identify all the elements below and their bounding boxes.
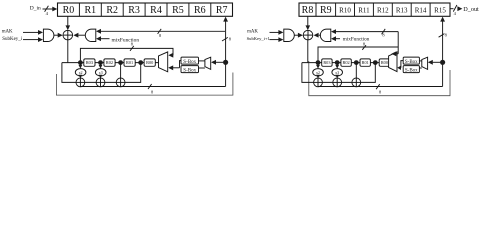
svg-text:R01: R01 [126,60,133,65]
M2 output stubs to S-Boxes [199,60,205,62]
feedback vertical wire to R15 [442,21,444,87]
tap wire dot2 to x3 multiplier [336,63,338,67]
D_in bus slash [45,6,49,12]
M1 bottom input from S-Boxes [173,67,180,69]
wire R8 to XOR2 [307,16,309,26]
register bank R8-R15 [299,3,450,16]
S-Box 2 [403,66,419,73]
multiplier x3 [95,69,106,76]
chain register R00 [379,59,389,66]
svg-text:8: 8 [151,90,154,95]
slash on output bus [148,84,152,89]
register bank R0-R7 [58,3,233,16]
chain register R03 [84,59,95,66]
AND gate U2 (mixFunction gate) [85,29,96,41]
svg-text:R00: R00 [146,60,153,65]
AND gate U1 (mAK/SubKey_i) [43,29,54,41]
x2 output into xor c1 [79,75,81,77]
junction dot (feedback node) [223,60,228,65]
chain register R02 [104,59,115,66]
svg-text:R9: R9 [320,5,332,16]
top bypass wire from chain head [80,48,173,62]
sbox output bus [401,61,403,68]
svg-text:R4: R4 [150,5,162,16]
chain register R01 [360,59,370,66]
D_in wire [43,8,54,10]
M3 bottom input from S-Boxes [400,67,401,69]
output bus from c1 to feedback vertical [80,86,225,88]
xor c2 [333,78,342,87]
svg-text:R01: R01 [362,60,369,65]
feedback vertical wire to R7 [225,21,227,87]
mux M4 [422,57,428,69]
svg-text:R02: R02 [343,60,350,65]
top bypass wire from chain head [318,47,398,63]
AND gate U4 (mixFunction gate) [320,29,330,41]
svg-text:x3: x3 [99,71,103,75]
outer box (right half) [309,61,450,96]
svg-text:mAK: mAK [247,29,258,34]
slash on output bus [376,84,380,89]
byte chain row wire [302,62,389,64]
svg-text:R00: R00 [381,60,388,65]
byte chain row wire [62,62,158,64]
U1 output wire into XOR1 [54,34,59,36]
svg-text:S-Box: S-Box [183,60,196,65]
svg-text:R8: R8 [302,5,314,16]
U4 bottom input mixFunction [336,38,340,40]
U1 input wires [23,31,38,33]
svg-text:4: 4 [454,11,457,16]
svg-text:R14: R14 [415,6,427,14]
svg-text:R10: R10 [339,6,351,14]
svg-text:R7: R7 [216,5,228,16]
mux M2 [205,57,211,69]
register labels R8..R15 [302,5,332,16]
xor row wire with right corner to dot4 [314,63,376,83]
svg-text:R11: R11 [358,6,370,14]
svg-text:mAK: mAK [2,29,13,34]
svg-text:R03: R03 [323,60,330,65]
slash on vertical bus [222,37,228,41]
svg-text:R03: R03 [86,60,93,65]
output bus from c1 to feedback vertical [318,86,443,88]
svg-text:R3: R3 [128,5,140,16]
S-Box 1 [181,57,199,64]
slash on U4 feedback wire [382,29,386,34]
chain register R01 [124,59,135,66]
mux M1 [159,52,168,72]
U2 top input from feedback [101,30,225,32]
XOR1 output down to chain [67,40,69,63]
xor row wire with right corner to dot4 [76,63,141,83]
slash on bypass wire [362,45,366,50]
arrow into mux M3 top [396,53,398,55]
svg-text:R15: R15 [434,6,446,14]
svg-text:x2: x2 [79,71,83,75]
x3 output into xor c2 [100,75,102,77]
svg-text:R2: R2 [106,5,118,16]
D_out wire [450,8,454,10]
tap wire dot1 to x2 multiplier [79,63,81,67]
XOR gate XOR2 [303,30,313,40]
wire R0 to XOR1 [67,16,69,26]
U3 input wires [270,31,279,33]
chain register labels [323,60,388,65]
svg-text:8: 8 [379,89,382,94]
S-Box 1 [403,57,419,64]
svg-text:8: 8 [445,32,448,37]
svg-text:x3: x3 [335,71,339,75]
M2 input from feedback node [216,61,223,63]
AND gate U3 (mAK/SubKey_i+1) [284,29,295,41]
M4 input from feedback node [433,61,441,63]
sbox output bus [180,61,182,68]
chain node dots [78,60,83,65]
svg-text:R02: R02 [106,60,113,65]
svg-text:R13: R13 [396,6,408,14]
svg-text:R6: R6 [194,5,206,16]
XOR gate XOR1 [63,30,73,40]
xor c1 [314,78,323,87]
slash on vertical bus [439,34,445,38]
svg-text:R1: R1 [84,5,96,16]
U2 output wire into XOR1 [79,34,86,36]
chain register R02 [341,59,351,66]
D_in arrowhead [52,7,57,12]
U4 output wire into XOR2 [319,34,321,36]
svg-text:R5: R5 [172,5,184,16]
svg-text:8: 8 [229,36,232,41]
chain register labels [86,60,153,65]
slash on feedback wire [158,29,162,34]
chain left corner down to xor row [302,63,314,83]
junction dot (feedback node) [440,60,445,65]
U4 top input from bypass drop [336,31,398,33]
register labels R0..R7 [63,5,228,16]
mux M3 [389,52,397,72]
D_out arrowhead [457,6,462,11]
tap wire dot1 to x2 multiplier [317,63,319,67]
multiplier x2 [313,69,324,76]
svg-text:S-Box: S-Box [183,68,196,73]
xor c3 [116,78,125,87]
x3 output into xor c2 [336,75,338,77]
chain register R00 [144,59,155,66]
x2 output into xor c1 [317,75,319,77]
slash on bypass wire [130,46,134,51]
svg-text:S-Box: S-Box [405,68,418,73]
svg-text:D_in: D_in [30,6,41,12]
chain left corner down to xor row [62,63,76,83]
bypass drop wire from U4 wire through top wire into mux M3 [397,32,399,54]
svg-text:x2: x2 [316,71,320,75]
tap wire dot3 into xor c3 [120,63,122,79]
U2 bottom input mixFunction [101,38,110,40]
tap wire dot2 to x3 multiplier [100,63,102,67]
svg-text:mixFunction: mixFunction [112,38,140,44]
svg-text:R12: R12 [377,6,389,14]
svg-text:SubKey_i+1: SubKey_i+1 [247,36,271,41]
svg-text:8: 8 [159,33,162,38]
svg-text:4: 4 [46,11,49,16]
svg-text:mixFunction: mixFunction [343,36,370,42]
tap wire dot3 into xor c3 [355,63,357,79]
outer box (left half) [56,73,233,96]
D_out bus slash [453,5,457,12]
svg-text:SubKey_i: SubKey_i [2,37,23,42]
svg-text:R0: R0 [63,5,75,16]
multiplier x3 [332,69,343,76]
svg-text:8: 8 [382,32,385,37]
S-Box 2 [181,66,199,73]
chain register R03 [322,59,332,66]
multiplier x2 [75,69,86,76]
svg-text:S-Box: S-Box [405,60,418,65]
M4 output stubs to S-Boxes [419,60,421,62]
xor c1 [76,78,85,87]
svg-text:D_out: D_out [463,6,479,13]
XOR2 output down to chain [307,40,309,63]
xor c3 [352,78,361,87]
chain node dots [316,60,321,65]
U3 output wire into XOR2 [294,34,298,36]
xor c2 [96,78,105,87]
